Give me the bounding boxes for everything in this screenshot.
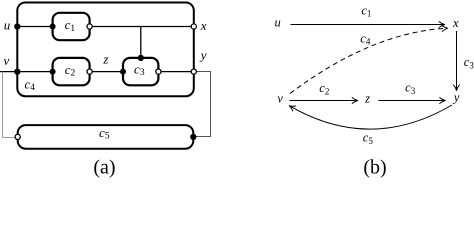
svg-text:(b): (b) [363,157,386,179]
node u (filled) [14,23,20,29]
svg-text:x: x [452,16,459,30]
c2 output circle [87,69,92,74]
svg-text:v: v [277,92,283,106]
wire: external input to v [0,71,17,73]
wire: c2 output to c3 input (node z) [90,71,123,73]
wire: y output right and down to c5 [196,72,211,137]
wire: left branch down to c5 input [3,72,16,138]
edge c3: x to y [456,31,458,90]
edge c4: v to x (dashed) [290,28,448,93]
edge c5: y to v (curved) [290,105,453,129]
c3 input dot [120,69,126,75]
c5 output dot [190,134,196,140]
box c3 [123,58,158,85]
wire: c1 output to x [90,26,194,28]
svg-text:z: z [364,92,370,106]
c1 input dot [50,24,56,30]
svg-text:u: u [274,16,280,30]
node x (open) [191,24,196,29]
c5 input circle [15,134,20,139]
edge c1: u to x [291,24,445,26]
svg-text:y: y [199,47,207,62]
box c2 [53,58,90,85]
c1 output circle [87,24,92,29]
wire: branch down to c3 top [140,27,142,58]
svg-text:u: u [4,17,11,32]
node v (filled) [14,68,20,74]
outer box c4 [17,3,194,97]
edge c3: z to y [378,100,445,102]
wire: u to c1 input [17,26,52,28]
svg-text:x: x [200,18,207,33]
wire: v to c2 input [17,71,52,73]
svg-text:z: z [102,51,108,66]
svg-text:v: v [4,53,10,68]
c3 top dot [138,55,144,61]
edge c2: v to z [290,100,358,102]
box c5 [18,125,194,149]
c2 input dot [50,69,56,75]
node y (open) [191,69,196,74]
wire: c3 output to y [158,71,193,73]
c3 output circle [156,69,161,74]
svg-text:(a): (a) [93,157,115,179]
svg-text:y: y [452,91,460,105]
box c1 [53,13,90,40]
